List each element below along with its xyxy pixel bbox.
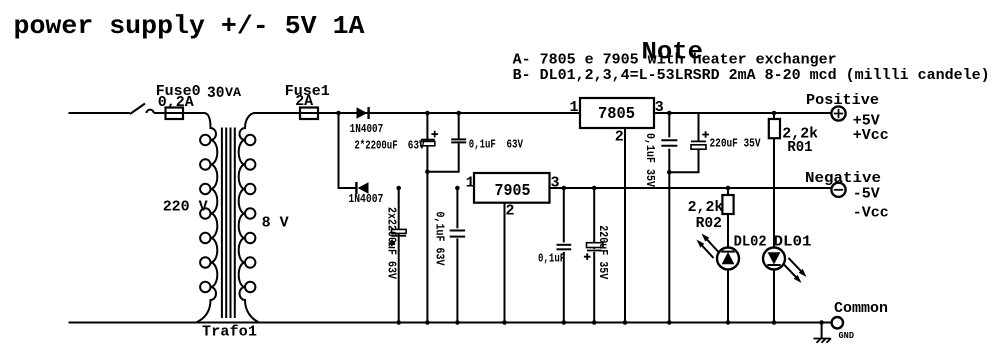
- DL01 arrows: [784, 264, 799, 279]
- svg-text:Trafo1: Trafo1: [202, 324, 257, 341]
- node: top rail at C1: [425, 111, 430, 116]
- svg-text:VA: VA: [225, 85, 241, 100]
- svg-text:2: 2: [506, 203, 515, 220]
- capacitor C6 220uF 35V (negative out): [593, 188, 595, 323]
- capacitor C1 2*2200uF 63V (positive filter): [426, 113, 428, 323]
- svg-text:63V: 63V: [408, 139, 426, 153]
- svg-text:63V: 63V: [507, 137, 524, 151]
- svg-text:220uF 35V: 220uF 35V: [596, 225, 610, 280]
- svg-text:Common: Common: [834, 300, 888, 317]
- svg-text:B- DL01,2,3,4=L-53LRSRD 2mA 8-: B- DL01,2,3,4=L-53LRSRD 2mA 8-20 mcd (mi…: [513, 67, 990, 84]
- capacitor C2 0,1uF 63V (positive): [429, 113, 458, 172]
- svg-text:-Vcc: -Vcc: [853, 205, 889, 222]
- svg-text:Negative: Negative: [805, 170, 881, 187]
- svg-text:DL01: DL01: [774, 234, 812, 251]
- svg-text:0,1uF 35V: 0,1uF 35V: [643, 133, 657, 188]
- node: top rail at C2: [456, 111, 461, 116]
- diode D1 1N4007 (positive): [357, 107, 368, 119]
- wire: positive rail 7805 out: [654, 112, 831, 114]
- wire: 7805 pin2 to ground: [624, 128, 626, 323]
- wire: [154, 112, 166, 114]
- resistor R02 2,2k: [727, 188, 729, 195]
- diode D2 1N4007 (negative): [358, 182, 369, 194]
- svg-text:220uF 35V: 220uF 35V: [710, 137, 762, 151]
- svg-text:2*2200uF: 2*2200uF: [354, 139, 397, 153]
- node: C6 at ground rail: [592, 320, 597, 325]
- node: C7 branch at ground rail: [667, 320, 672, 325]
- node: 7805 pin2 at ground rail: [623, 320, 628, 325]
- node: C5 at ground rail: [562, 320, 567, 325]
- node: C3 at ground rail: [396, 320, 401, 325]
- node: DL01 at ground rail: [772, 320, 777, 325]
- node: C1/C2 bottom join: [425, 169, 430, 174]
- svg-text:+Vcc: +Vcc: [853, 127, 889, 144]
- svg-text:1N4007: 1N4007: [348, 192, 383, 206]
- node: rectifier input junction: [336, 111, 341, 116]
- switch SW: [130, 104, 145, 115]
- svg-text:1N4007: 1N4007: [350, 122, 384, 136]
- svg-text:220 V: 220 V: [163, 199, 208, 216]
- node: C7/C8 bottom join: [667, 170, 672, 175]
- capacitor C4 0,1uF 63V (negative): [456, 188, 458, 323]
- terminal Negative: [831, 183, 845, 197]
- svg-text:2: 2: [615, 129, 624, 146]
- svg-text:-5V: -5V: [853, 186, 880, 203]
- svg-text:A- 7805 e 7905 with heater exc: A- 7805 e 7905 with heater exchanger: [513, 52, 837, 69]
- svg-text:power supply +/- 5V 1A: power supply +/- 5V 1A: [14, 11, 365, 41]
- node: 7905 pin2 at ground rail: [502, 320, 507, 325]
- svg-text:0,2A: 0,2A: [158, 94, 194, 111]
- svg-text:2A: 2A: [295, 93, 313, 110]
- svg-text:0,1uF: 0,1uF: [469, 137, 496, 151]
- node: negative rail at C4: [455, 186, 460, 191]
- switch contact bump: [147, 110, 154, 113]
- capacitor C8 220uF 35V (positive out): [669, 113, 698, 172]
- wire: down to negative diode: [339, 113, 358, 188]
- node: neg rail at C5: [562, 186, 567, 191]
- svg-text:30: 30: [207, 84, 225, 102]
- node: pos rail at R01: [772, 111, 777, 116]
- node: DL02 at ground rail: [726, 320, 731, 325]
- svg-text:8 V: 8 V: [262, 215, 289, 232]
- svg-text:7805: 7805: [598, 105, 635, 124]
- node: C1 branch at ground rail: [425, 320, 430, 325]
- svg-text:0,1uF 63V: 0,1uF 63V: [432, 212, 446, 267]
- node: pos rail at C7: [667, 111, 672, 116]
- svg-text:1: 1: [466, 175, 475, 192]
- ground rail: [69, 322, 832, 324]
- regulator U2 7905: [474, 173, 550, 203]
- regulator U1 7805: [580, 98, 654, 128]
- svg-text:DL02: DL02: [734, 234, 767, 251]
- ground symbol: [821, 323, 823, 339]
- svg-text:7905: 7905: [495, 182, 531, 201]
- resistor R01 2,2k: [773, 113, 775, 119]
- svg-text:R01: R01: [787, 139, 812, 156]
- node: neg rail at C6: [592, 186, 597, 191]
- capacitor C5 0,1uF (negative out): [563, 188, 565, 323]
- wire: top rail to 7805: [318, 112, 580, 114]
- node: C4 at ground rail: [455, 320, 460, 325]
- node: ground junction: [819, 320, 824, 325]
- svg-text:2,2k: 2,2k: [688, 199, 724, 216]
- svg-text:GND: GND: [839, 331, 855, 341]
- svg-text:1: 1: [570, 99, 579, 116]
- svg-text:2x2200uF 63V: 2x2200uF 63V: [384, 207, 398, 280]
- capacitor C7 0,1uF 35V (positive out): [668, 113, 670, 323]
- terminal Positive: [831, 106, 845, 120]
- LED DL01: [763, 248, 785, 270]
- svg-text:Positive: Positive: [806, 92, 879, 109]
- svg-text:R02: R02: [696, 215, 722, 232]
- node: neg rail at R02: [726, 186, 731, 191]
- transformer core: [221, 128, 223, 319]
- fuse Fuse1: [300, 108, 318, 120]
- node: negative rail at C3: [396, 186, 401, 191]
- wire: negative rail 7905 out: [550, 187, 832, 189]
- LED DL02: [717, 248, 739, 270]
- wire: [183, 112, 204, 114]
- terminal Common: [832, 317, 843, 328]
- wire: secondary to Fuse1: [255, 112, 300, 114]
- svg-text:0,1uF: 0,1uF: [538, 252, 565, 266]
- transformer primary winding: [196, 113, 217, 323]
- wire: 7905 pin2 to ground: [504, 203, 506, 323]
- fuse Fuse0: [166, 108, 184, 120]
- wire: AC input top: [69, 112, 131, 114]
- DL02 arrows: [705, 237, 719, 252]
- transformer secondary winding: [239, 113, 259, 323]
- capacitor C3 2x2200uF 63V (negative filter): [398, 188, 400, 323]
